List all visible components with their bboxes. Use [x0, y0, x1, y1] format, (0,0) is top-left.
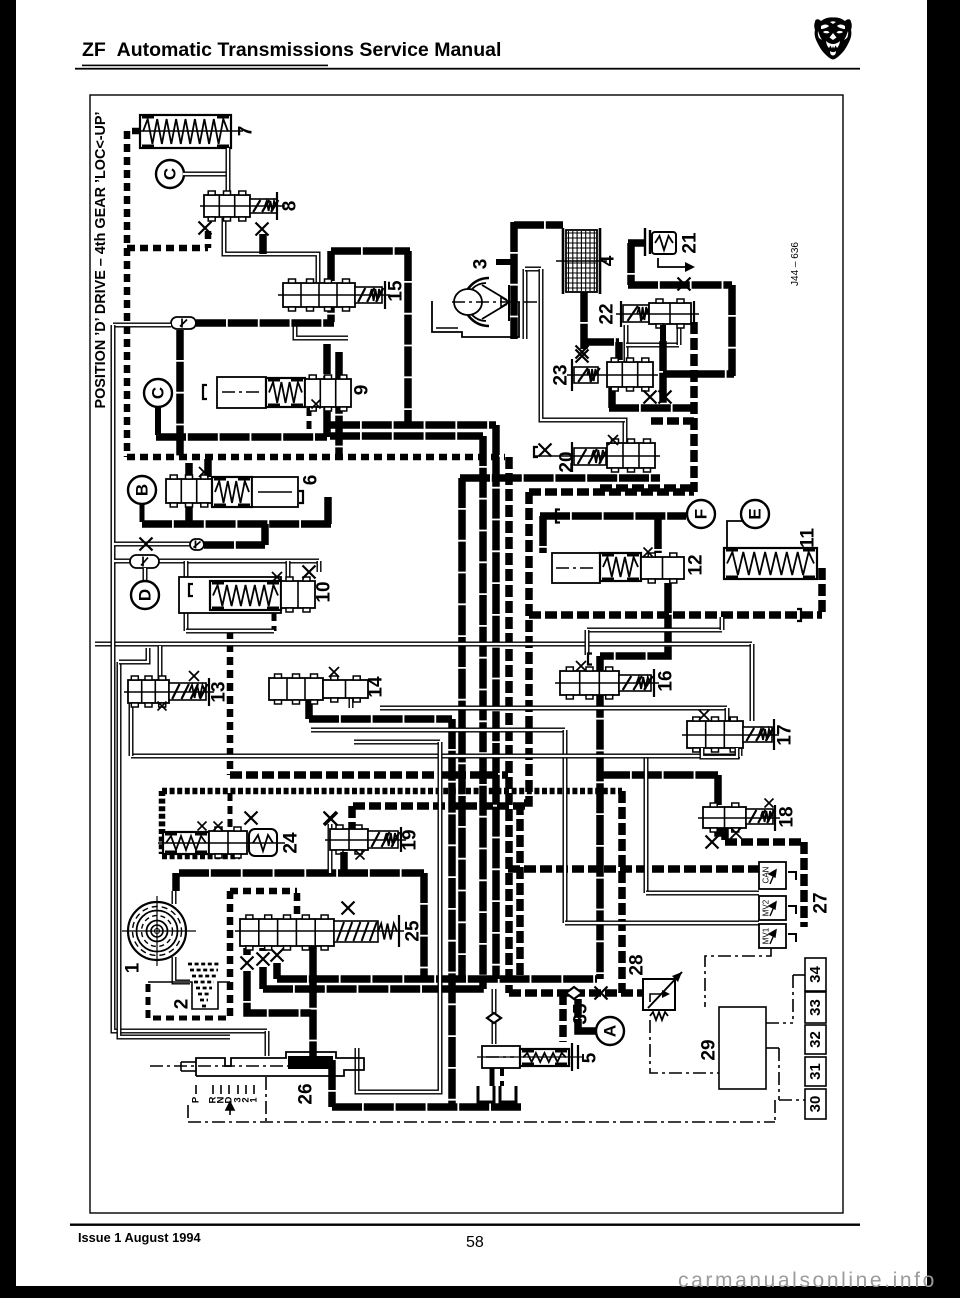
wire duct valve8 down	[224, 218, 318, 283]
valve 22	[620, 301, 622, 327]
selector 26 body	[196, 1052, 364, 1076]
svg-text:11: 11	[798, 528, 819, 549]
svg-text:9: 9	[352, 385, 373, 396]
wire thick h y478	[460, 474, 660, 482]
wire duct check line y561	[114, 559, 319, 564]
wire thick converter stem	[172, 873, 180, 891]
node F circle	[687, 500, 715, 528]
wire duct right leg to valve17	[750, 644, 755, 721]
solenoid 28 pressure regulator	[643, 979, 675, 1010]
wire valve15 enclosure left	[327, 251, 335, 322]
svg-text:25: 25	[403, 920, 424, 942]
svg-text:10: 10	[314, 581, 335, 602]
wire dashed valve9 drain	[307, 408, 312, 437]
valve 13	[128, 680, 169, 703]
wire thick selector bottom	[328, 1060, 336, 1107]
wire duct y631 drain header	[186, 629, 274, 634]
wire thick right leg x732	[728, 285, 736, 376]
svg-text:15: 15	[386, 280, 407, 302]
svg-text:24: 24	[281, 832, 302, 854]
svg-text:30: 30	[807, 1096, 824, 1113]
wire duct converter inlet	[172, 891, 177, 904]
wire thick after pill	[204, 541, 265, 549]
wire dash-dot selector to ECU	[188, 1121, 775, 1123]
torque converter 1	[128, 902, 186, 960]
wire thick under valve 14	[305, 697, 313, 719]
svg-text:ZF Automatic Transmissions Se: ZF Automatic Transmissions Service Manua…	[82, 39, 501, 61]
wire duct valve20 box top	[545, 420, 625, 444]
title underline	[82, 65, 328, 67]
wire duct valve13 left leg	[129, 703, 134, 756]
svg-text:F: F	[692, 509, 711, 519]
wire thick F-line	[540, 512, 686, 520]
valve 23	[571, 359, 573, 391]
wire thick valve21 stub	[628, 239, 645, 247]
wire thick to restrictor	[196, 319, 334, 327]
svg-text:27: 27	[811, 892, 832, 913]
wire duct left main B	[119, 662, 230, 1037]
footer rule	[70, 1224, 860, 1226]
sensor box 30	[805, 1089, 826, 1119]
wire thick vertical x327	[323, 344, 331, 437]
vent x valve20	[608, 435, 618, 445]
valve 21 relief	[645, 228, 650, 256]
valve 8 lockup valve	[204, 195, 250, 217]
wire duct left main A	[113, 325, 267, 1031]
wire duct valve22 to valve23	[624, 325, 629, 363]
wire thick stub to valve6	[204, 459, 212, 477]
bottom black bar	[0, 1286, 960, 1298]
wire duct C1 to line	[183, 172, 228, 177]
wire thick vertical bus x496	[492, 425, 500, 979]
wire thick stub below valve8	[259, 234, 267, 254]
wire lock-up branch to valve 8	[127, 245, 208, 252]
svg-text:CAN: CAN	[762, 866, 771, 883]
wire dotted h y421	[651, 417, 694, 425]
svg-text:21: 21	[680, 232, 701, 254]
wire dashed box top	[230, 888, 297, 895]
vent X right of 24	[324, 812, 337, 825]
svg-text:26: 26	[296, 1083, 317, 1104]
sensor box 32	[805, 1025, 826, 1054]
node C1 circle	[156, 160, 184, 188]
check pill small	[190, 539, 204, 550]
wire dotted from valve 18 area	[725, 838, 804, 846]
wire fine dotted long horizontal	[162, 788, 622, 795]
valve 18	[703, 807, 746, 828]
restrictor pill on line 15	[171, 317, 196, 329]
svg-text:20: 20	[557, 451, 578, 472]
wire duct check line y544	[114, 542, 190, 547]
wire bus B	[263, 985, 484, 993]
wire valve15 enclosure top	[331, 247, 410, 255]
wire duct valve14 bottom	[349, 696, 354, 708]
valve 20	[571, 442, 573, 472]
wire thick vertical bus x483	[479, 436, 487, 989]
wire duct converter outlet	[174, 957, 190, 982]
node D circle	[131, 581, 159, 609]
wire duct D stem	[143, 568, 148, 581]
wire duct pump to valve20	[541, 269, 625, 420]
wire dotted h y492	[529, 488, 694, 496]
wire thick x313 to selector	[309, 946, 317, 1056]
svg-text:8: 8	[280, 201, 301, 212]
svg-text:34: 34	[807, 966, 824, 983]
wire dash-dot 28 to ECU	[650, 1020, 719, 1073]
svg-text:carmanualsonline.info: carmanualsonline.info	[678, 1269, 937, 1292]
wire duct y730 to MV1	[311, 728, 565, 733]
svg-text:5: 5	[580, 1052, 601, 1063]
selector arrow at D	[226, 1102, 234, 1115]
svg-text:P: P	[191, 1096, 202, 1103]
svg-text:B: B	[133, 484, 152, 496]
pump port stub	[496, 259, 514, 265]
wire duct MV1 horizontal	[565, 921, 759, 926]
wire thick h y436	[330, 432, 483, 440]
wire dotted vertical x694	[690, 322, 698, 492]
wire thick valve12 down	[600, 583, 668, 656]
node B circle	[128, 476, 156, 504]
svg-text:31: 31	[807, 1063, 824, 1080]
solenoid block 27 MV2	[759, 896, 786, 920]
svg-text:POSITION ’D’ DRIVE – 4th GEAR: POSITION ’D’ DRIVE – 4th GEAR ’LOC<-UP’	[93, 111, 109, 408]
wire dotted box valve19 top	[353, 802, 525, 810]
diagram frame	[90, 95, 843, 1213]
wire duct x183 down	[184, 561, 189, 631]
wire thick vertical x339	[335, 352, 343, 456]
sensor box 33	[805, 992, 826, 1023]
valve 7 converter clutch spring box	[140, 115, 231, 148]
header rule	[75, 68, 860, 70]
valve 17	[687, 721, 743, 748]
wire thick corner below valve 18	[721, 828, 729, 840]
wire cooler corner right	[584, 338, 619, 346]
valve 19	[330, 829, 368, 850]
svg-text:MV2: MV2	[762, 899, 771, 916]
vent X below valve 25 a	[241, 957, 254, 970]
svg-text:29: 29	[699, 1039, 720, 1060]
wire dashed into valve 25	[294, 893, 301, 916]
wire duct y742	[354, 740, 440, 745]
svg-text:16: 16	[656, 670, 677, 691]
arrow to sump from 21	[658, 258, 686, 267]
wire duct y708	[380, 706, 727, 711]
wire dash-dot ECU to 34 33	[766, 1022, 793, 1024]
wire lock-up dashed horizontal	[127, 454, 505, 461]
vent X valve8 left	[199, 222, 212, 235]
vent X below valve 25 b	[257, 953, 270, 966]
valve 10 accumulator	[179, 577, 281, 613]
svg-text:22: 22	[597, 303, 618, 324]
wire cooler down	[580, 292, 588, 349]
left black bar	[0, 0, 16, 1298]
wire dashed from valve 10 down	[272, 613, 277, 631]
jaguar growler logo	[814, 17, 852, 59]
valve 16	[560, 671, 619, 695]
svg-text:A: A	[601, 1025, 620, 1037]
selector gate positions	[195, 1085, 197, 1094]
sump 2 pan outline	[148, 982, 230, 1009]
wire dotted box valve19 left	[348, 806, 356, 830]
wire duct main horizontal y644	[95, 642, 752, 647]
wire dotted branch down to valve 5	[559, 993, 567, 1042]
wire thin left feed	[113, 323, 171, 328]
restrictor X on y285	[678, 278, 691, 291]
wire thick y775 under valve17	[600, 771, 718, 779]
wire dotted to solenoid block	[508, 865, 759, 873]
vent X valve8 right	[256, 223, 269, 236]
wire thick horizontal under circle C	[156, 433, 327, 441]
wire dashed into valve 24	[228, 793, 233, 827]
svg-text:7: 7	[236, 126, 257, 137]
solenoid block 27 MV1	[759, 924, 786, 948]
svg-text:12: 12	[686, 554, 707, 575]
right black bar	[927, 0, 960, 1298]
restrictor X y544	[140, 538, 153, 551]
wire thick converter-line y285	[628, 281, 732, 289]
wire thick to cooler	[514, 221, 563, 229]
wire duct valve13 top feed	[158, 646, 163, 680]
svg-text:19: 19	[400, 829, 421, 850]
svg-text:3: 3	[471, 259, 492, 270]
svg-text:2: 2	[172, 999, 193, 1010]
node A circle	[596, 1017, 624, 1045]
sump 2 dashed boundary	[148, 984, 230, 1018]
svg-text:58: 58	[466, 1234, 484, 1251]
svg-text:1: 1	[249, 1097, 260, 1103]
wire E stem	[727, 521, 744, 548]
vent X above valve 23	[576, 346, 589, 359]
wire dotted horizontal mid	[230, 771, 508, 779]
valve 5 drain brackets	[478, 1086, 494, 1102]
wire pump outlet thick x514	[510, 222, 518, 339]
svg-text:18: 18	[777, 806, 798, 827]
valve 24	[163, 832, 209, 854]
restrictor X on valve18 line	[706, 836, 719, 849]
wire dotted h y615 to bracket	[529, 611, 822, 619]
wire duct MV2	[644, 756, 649, 893]
ECU 29	[719, 1007, 766, 1089]
wire thick A stub	[578, 999, 596, 1031]
wire thick under valve 23	[609, 404, 694, 412]
svg-text:32: 32	[807, 1031, 824, 1048]
strainer dashes	[188, 963, 220, 966]
svg-text:13: 13	[209, 681, 230, 702]
svg-text:33: 33	[807, 999, 824, 1016]
sensor box 34	[805, 958, 826, 991]
wire valve15 enclosure right	[404, 251, 412, 425]
wire thick vertical x424	[420, 873, 428, 979]
wire dashed box right leg	[227, 891, 234, 1018]
sensor box 31	[805, 1057, 826, 1086]
bracket valve20	[534, 447, 538, 457]
wire dotted vertical right of center	[618, 791, 626, 993]
wire C2 stem	[155, 407, 161, 435]
svg-text:J44 – 636: J44 – 636	[790, 242, 801, 286]
svg-text:6: 6	[301, 475, 322, 486]
cooler 4	[566, 230, 597, 292]
wire dotted box valve20 bottom	[600, 484, 694, 492]
wire lock-up dotted vertical center	[505, 457, 513, 993]
valve 5 damper	[482, 1046, 520, 1068]
wire dash-dot MV1 to ECU	[705, 948, 771, 1007]
svg-text:14: 14	[366, 676, 387, 698]
wire B stem	[140, 504, 145, 522]
valve 9 accumulator	[217, 377, 266, 408]
drain stub valve22	[660, 325, 666, 341]
wire duct pump loop	[523, 269, 528, 339]
node C2 circle	[144, 379, 172, 407]
svg-text:28: 28	[627, 954, 648, 975]
svg-text:MV1: MV1	[762, 927, 771, 944]
wire thick x658 to valve 12	[654, 519, 662, 553]
wire thick vertical bus x462	[458, 478, 466, 979]
svg-text:E: E	[746, 508, 765, 519]
solenoid block 27 CAN	[759, 862, 786, 889]
vent XX below valve 23	[644, 391, 657, 404]
node E circle	[741, 500, 769, 528]
brackets right of solenoids	[788, 872, 796, 942]
wire fine dotted under valve24	[162, 853, 240, 860]
wire thick x663 down to box bottom	[659, 341, 667, 406]
wire thick x452 long	[448, 719, 456, 1107]
duct valve17 bottom box	[702, 748, 737, 757]
check pill large to circle D	[130, 555, 159, 568]
wire duct y630	[587, 628, 722, 633]
restrictor X on 35 line	[595, 987, 608, 1000]
svg-text:23: 23	[551, 364, 572, 385]
svg-text:D: D	[136, 589, 155, 601]
valve 25 manual	[240, 919, 334, 946]
vent X below cooler	[576, 350, 589, 363]
wire thick vertical left x180	[176, 330, 184, 456]
wire thick stub below valve19	[340, 852, 348, 873]
wire dashed below valve5	[500, 1068, 504, 1086]
wire thick enclosure B6 bottom	[142, 520, 331, 528]
wire fine dotted left leg	[159, 791, 166, 854]
wire dotted to solenoid 28	[509, 989, 643, 997]
valve 12 accumulator	[552, 553, 600, 583]
wire dotted vertical x529	[520, 492, 529, 975]
sump pan under pump	[432, 301, 519, 337]
wire thick y873	[179, 869, 424, 877]
valve 15 regulator	[283, 283, 355, 307]
valve 6 accumulator	[166, 479, 212, 503]
svg-text:4: 4	[598, 255, 619, 266]
wire thick h y425	[330, 421, 496, 429]
svg-text:17: 17	[775, 724, 796, 745]
wire dash-dot ECU to 31	[766, 1047, 779, 1049]
check diamond on valve5 feed	[487, 1013, 501, 1023]
valve 14	[269, 678, 323, 700]
svg-text:C: C	[161, 168, 180, 180]
pump 3	[464, 278, 489, 326]
wire duct valve7 down	[226, 148, 231, 196]
wire duct valve15 bottom loop	[295, 324, 348, 338]
wire duct x440 U to selector	[357, 742, 440, 1092]
accumulator 11 spring box	[724, 548, 817, 579]
vent X below valve 25 c	[271, 949, 284, 962]
wire duct x494 to valve5	[492, 989, 497, 1044]
wire lock-up dashed main	[127, 131, 140, 457]
wire duct y756	[131, 754, 740, 759]
svg-text:Issue 1 August 1994: Issue 1 August 1994	[78, 1230, 201, 1245]
wire thick left border valve16 enclosure	[596, 656, 604, 979]
wire bus A	[277, 975, 597, 983]
check valve 35 diamond	[566, 987, 582, 999]
svg-text:1: 1	[123, 962, 144, 973]
svg-text:C: C	[149, 387, 168, 399]
wire manual valve 25 drains	[243, 948, 251, 955]
